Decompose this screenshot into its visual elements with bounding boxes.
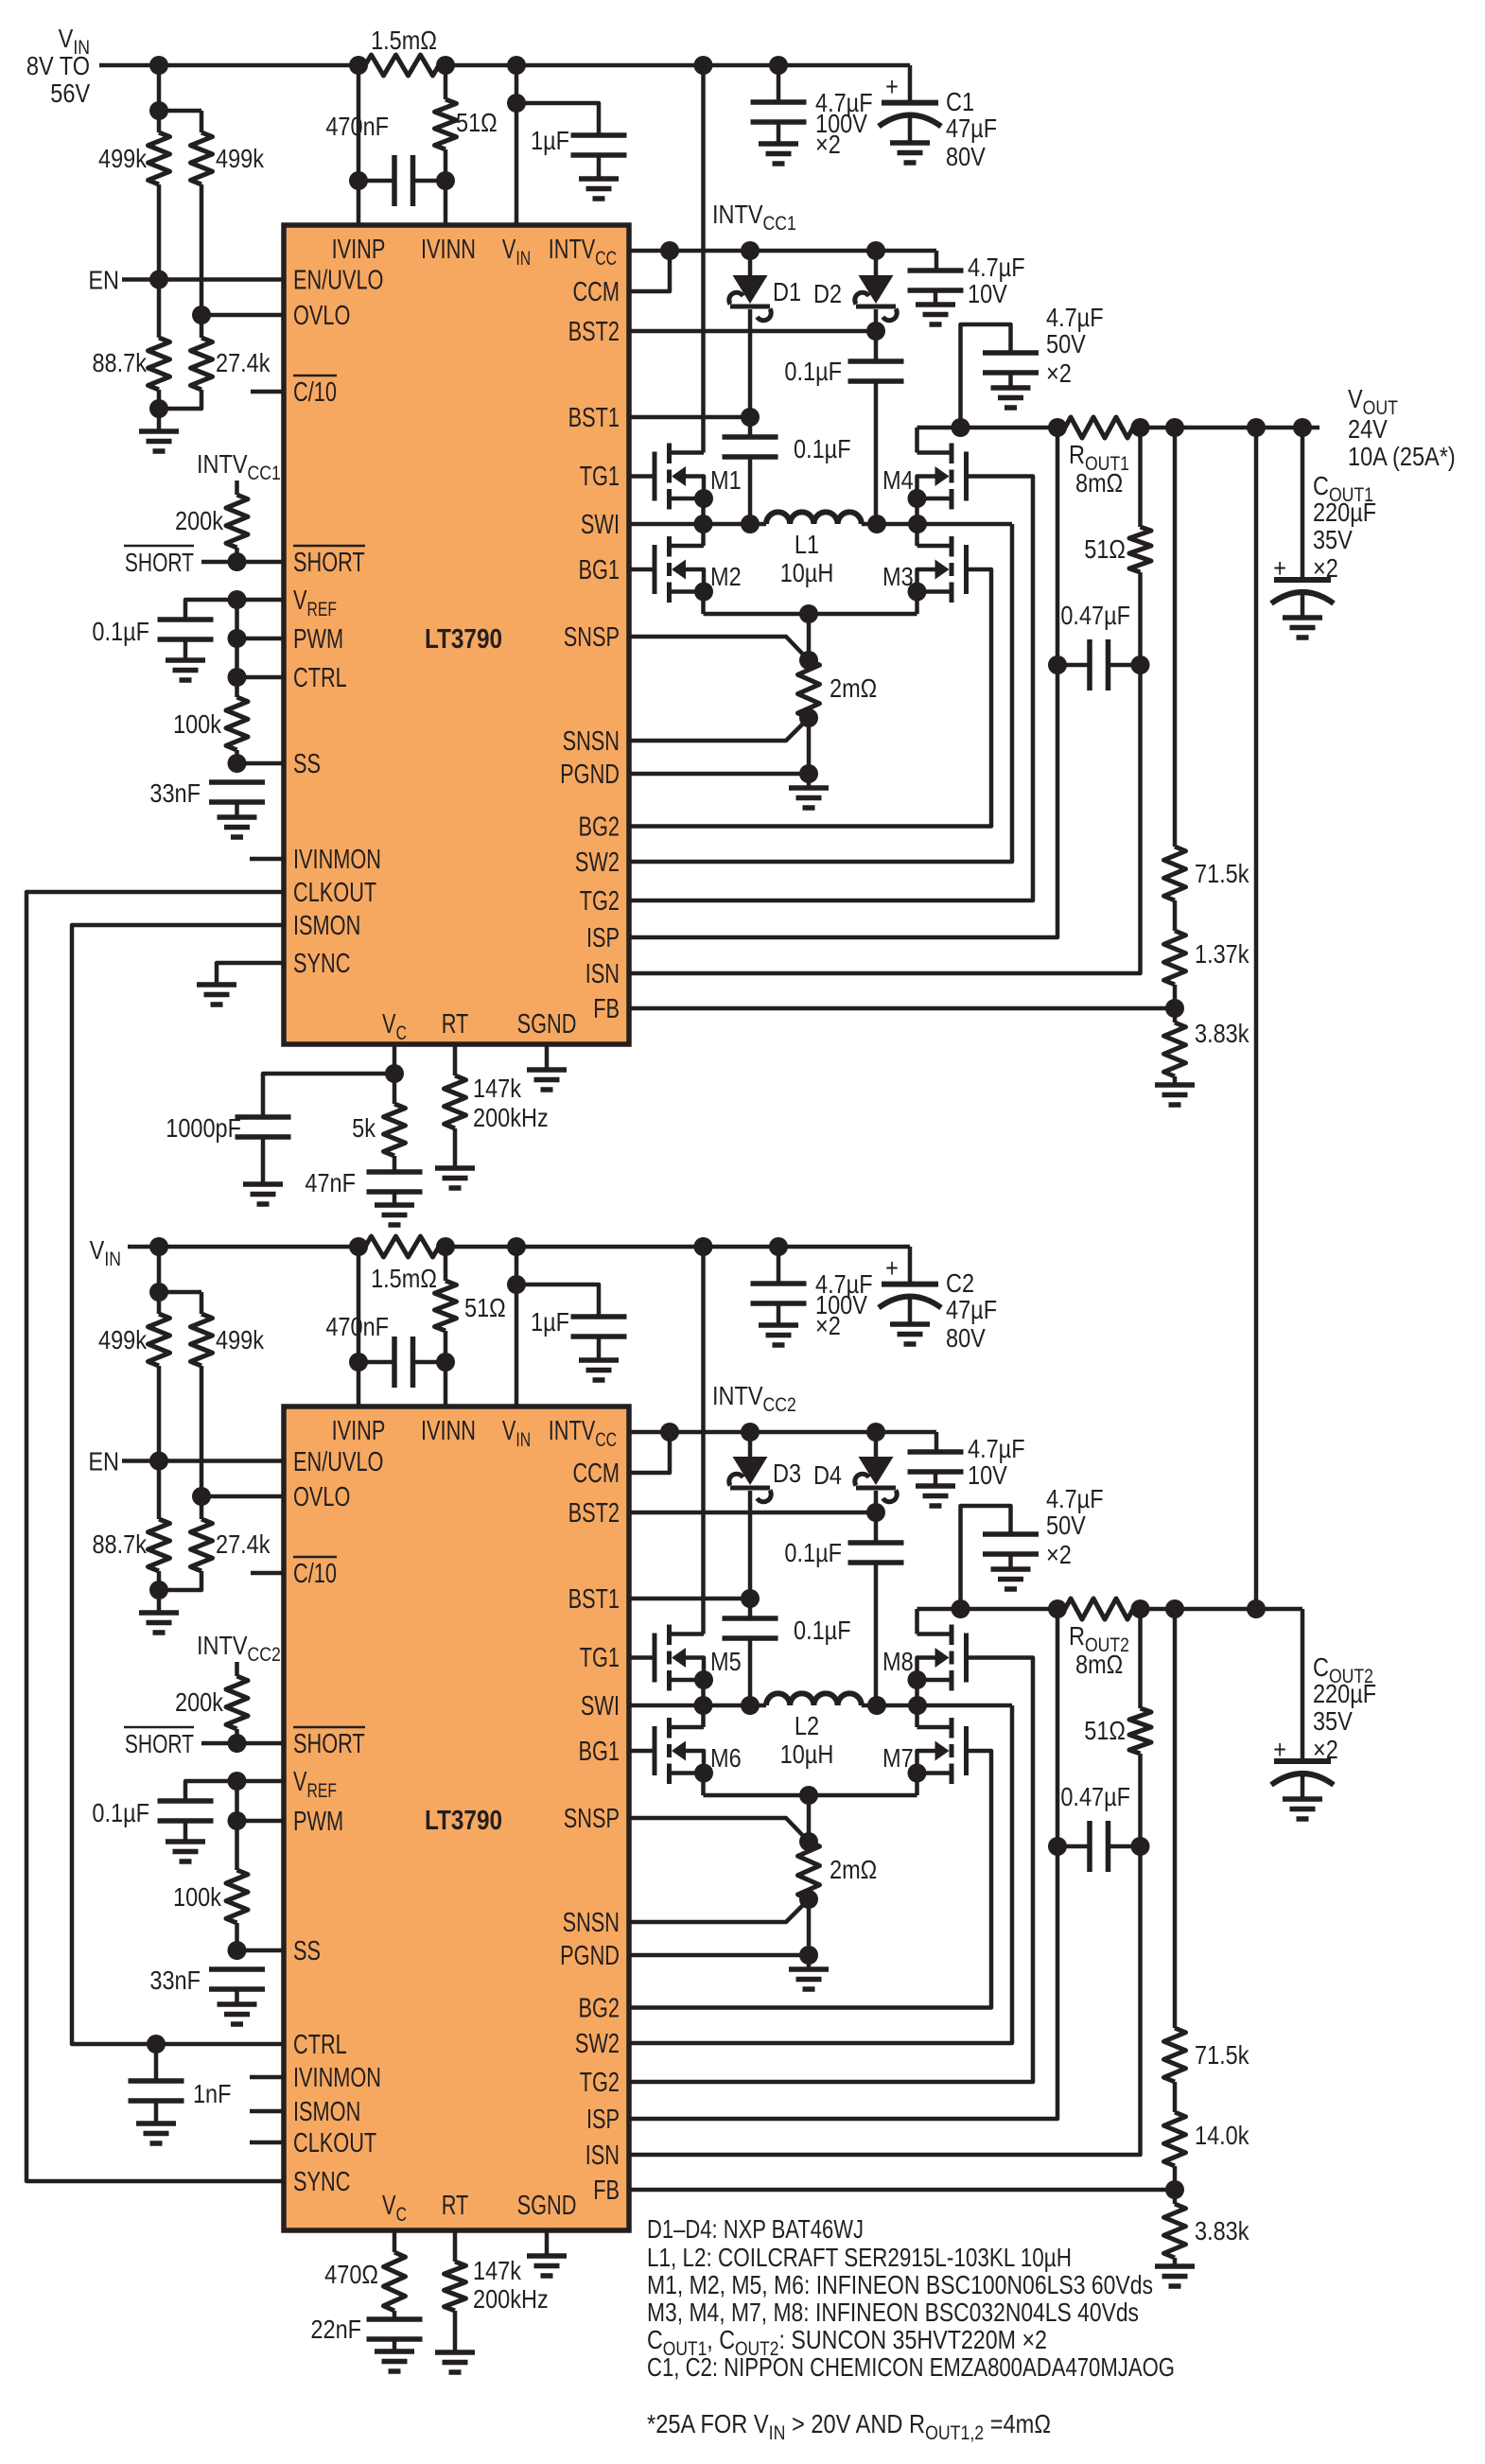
note COUT1 COUT2 part number	[647, 2325, 1047, 2360]
resistor 71.5k feedback top	[1164, 428, 1249, 900]
svg-text:51Ω: 51Ω	[1084, 535, 1126, 564]
node rail-IVINP junction	[349, 56, 368, 75]
wire divider top to right 499k	[159, 1292, 201, 1314]
wire SGND to ground	[545, 2230, 550, 2256]
svg-text:470nF: 470nF	[325, 113, 389, 141]
svg-text:14.0k: 14.0k	[1195, 2122, 1249, 2150]
svg-text:×2: ×2	[1046, 359, 1072, 388]
svg-text:35V: 35V	[1313, 526, 1354, 554]
wire BG1 pin to M2 gate	[629, 568, 655, 572]
node SWI M5/M6 junction	[694, 1696, 713, 1715]
resistor 1.5mOhm input current sense	[358, 26, 445, 76]
node rail-VIN pin junction	[507, 1237, 526, 1256]
node PWM junction	[228, 1811, 247, 1830]
wire M3 gate to BG2 vertical	[629, 569, 991, 827]
wire M2 drain to SWI	[701, 524, 706, 546]
resistor 2mOhm output current sense	[798, 614, 878, 718]
capacitor 4.7uF 100V x2 input ceramic	[751, 1247, 873, 1340]
resistor ROUT2 8mOhm	[1057, 1599, 1141, 1679]
svg-text:147k: 147k	[473, 1075, 521, 1103]
svg-text:FB: FB	[593, 994, 620, 1024]
svg-text:27.4k: 27.4k	[216, 349, 271, 377]
net label VIN input	[26, 25, 91, 108]
node rail M-drain junction	[694, 1237, 713, 1256]
ground VREF bypass	[166, 660, 205, 680]
ground SYNC	[197, 985, 236, 1005]
svg-text:0.47µF: 0.47µF	[1060, 602, 1130, 630]
svg-text:LT3790: LT3790	[425, 1805, 502, 1835]
capacitor 0.1uF BST1 bootstrap	[723, 417, 851, 463]
wire BST1 pin	[629, 415, 750, 420]
net label INTVCC2 (200k pullup)	[197, 1632, 281, 1666]
wire IVINN pin vertical	[444, 1247, 448, 1407]
svg-text:100k: 100k	[173, 1883, 221, 1912]
svg-text:SGND: SGND	[517, 2191, 577, 2221]
net label EN	[88, 267, 119, 295]
resistor 71.5k feedback top	[1164, 1609, 1249, 2082]
wire IVINN pin vertical	[444, 65, 448, 225]
svg-text:M3, M4, M7, M8: INFINEON BSC03: M3, M4, M7, M8: INFINEON BSC032N04LS 40V…	[647, 2298, 1139, 2327]
svg-text:4.7µF: 4.7µF	[968, 253, 1025, 282]
resistor 100k PWM divider	[173, 677, 248, 763]
svg-text:IVINMON: IVINMON	[293, 845, 381, 875]
ground INTVCC bypass	[916, 1486, 955, 1506]
diode D2 BST2 schottky	[813, 251, 897, 321]
wire ISN pin	[629, 1846, 1141, 2155]
ground SGND	[527, 2256, 567, 2276]
svg-text:CTRL: CTRL	[293, 663, 347, 693]
svg-text:470nF: 470nF	[325, 1313, 389, 1341]
svg-text:1.5mΩ: 1.5mΩ	[371, 1265, 437, 1293]
capacitor 0.1uF VREF bypass	[92, 1799, 213, 1842]
ground COUT1	[1283, 618, 1322, 638]
svg-text:71.5k: 71.5k	[1195, 860, 1249, 888]
wire SNSP pin kelvin	[629, 637, 809, 660]
svg-text:SWI: SWI	[581, 1691, 620, 1721]
svg-text:200kHz: 200kHz	[473, 1104, 549, 1132]
svg-text:1.5mΩ: 1.5mΩ	[371, 26, 437, 55]
wire SHORT to pin	[201, 560, 284, 565]
svg-text:PGND: PGND	[560, 760, 620, 790]
wire VREF pin	[237, 1779, 285, 1784]
wire M8 source to SW2	[915, 1680, 919, 1705]
node 470nF left junction	[349, 171, 368, 190]
transistor M1 top buck NMOS	[655, 444, 742, 510]
wire SHORT to pin	[201, 1741, 284, 1746]
capacitor 470nF sense filter	[325, 1313, 445, 1388]
wire ISP pin	[629, 1846, 1057, 2119]
capacitor 0.1uF BST2 bootstrap	[784, 1512, 903, 1567]
svg-text:EN: EN	[88, 267, 119, 295]
wire TG1 pin to M1 gate	[629, 474, 655, 479]
wire SS pin	[237, 1948, 285, 1953]
svg-text:100k: 100k	[173, 710, 221, 739]
note M3 M4 M7 M8 part number	[647, 2298, 1139, 2327]
svg-text:M1: M1	[710, 466, 742, 495]
svg-text:1000pF: 1000pF	[166, 1114, 241, 1143]
node 0.47uF right junction	[1131, 655, 1150, 674]
wire rail to M-drain branch	[516, 1245, 704, 1249]
resistor 88.7k (EN/UVLO bottom)	[92, 1461, 169, 1572]
wire IVINMON stub	[250, 857, 284, 862]
svg-text:4.7µF: 4.7µF	[1046, 304, 1104, 332]
ground soft-start cap	[218, 2004, 257, 2024]
svg-text:SW2: SW2	[575, 2029, 620, 2059]
node divider ground junction	[149, 399, 168, 418]
node SW2 inductor junction	[867, 1696, 886, 1715]
svg-text:C/10: C/10	[293, 1559, 337, 1589]
wire BST2 cap to SW2 node	[874, 381, 879, 524]
svg-text:D1–D4: NXP BAT46WJ: D1–D4: NXP BAT46WJ	[647, 2214, 864, 2244]
wire VREF to 0.1uF	[185, 1781, 237, 1801]
ground 1000pF	[243, 1184, 283, 1204]
capacitor 4.7uF 10V INTVCC bypass	[908, 253, 1025, 308]
wire VOUT rail from M4	[917, 426, 961, 430]
ground input ceramic cap	[759, 1325, 798, 1345]
svg-text:SYNC: SYNC	[293, 949, 350, 979]
wire source node row	[704, 612, 917, 617]
node 2mOhm top node	[799, 1786, 818, 1805]
svg-text:+: +	[885, 73, 899, 101]
inductor L2 10uH	[751, 1693, 877, 1769]
wire source node row	[704, 1793, 917, 1798]
wire M4 gate to TG2 vertical	[629, 477, 1033, 901]
resistor 147k RT 200kHz	[445, 1044, 549, 1168]
node INTVCC D4 junction	[866, 1423, 885, 1442]
ground output ceramic cap	[991, 1569, 1031, 1589]
svg-text:CCM: CCM	[572, 1459, 620, 1489]
svg-text:10V: 10V	[968, 1461, 1008, 1490]
node SS junction	[228, 1941, 247, 1960]
wire ISMON stub	[250, 2109, 284, 2114]
svg-text:BST2: BST2	[568, 317, 620, 347]
svg-text:TG2: TG2	[580, 886, 620, 917]
svg-text:88.7k: 88.7k	[92, 349, 147, 377]
wire BG1 pin to M6 gate	[629, 1749, 655, 1754]
node 0.47uF right junction	[1131, 1837, 1150, 1856]
wire D4 cathode to BST2 node	[874, 1491, 879, 1512]
svg-text:3.83k: 3.83k	[1195, 1020, 1249, 1048]
wire M3 source down	[915, 592, 919, 615]
svg-text:47nF: 47nF	[305, 1169, 356, 1197]
wire VOUT rail mid	[1141, 1607, 1176, 1612]
svg-text:SHORT: SHORT	[125, 1730, 194, 1759]
ground feedback divider	[1155, 2258, 1195, 2286]
svg-text:D1: D1	[773, 278, 801, 306]
svg-text:8mΩ: 8mΩ	[1075, 1651, 1123, 1679]
wire M8 gate to TG2 vertical	[629, 1658, 1033, 2083]
transistor M5 top buck NMOS	[655, 1625, 742, 1691]
wire M4 drain to VOUT rail	[915, 428, 919, 453]
wire ISMON to phase-2 CTRL	[72, 925, 284, 2044]
wire VOUT rail end	[1302, 426, 1319, 430]
svg-text:499k: 499k	[98, 145, 147, 173]
node INTVCC-CCM junction	[660, 241, 679, 260]
note L1 L2 part number	[647, 2243, 1072, 2272]
svg-text:C1: C1	[946, 88, 974, 116]
wire rail to bulk cap C1	[778, 65, 910, 103]
svg-text:C/10: C/10	[293, 377, 337, 408]
transistor M3 bottom boost NMOS	[882, 536, 967, 603]
wire ISN pin	[629, 665, 1141, 973]
note 25A condition	[647, 2409, 1051, 2444]
node 1uF branch junction	[507, 94, 526, 113]
svg-text:PGND: PGND	[560, 1941, 620, 1971]
svg-text:50V: 50V	[1046, 1512, 1087, 1540]
svg-text:BST2: BST2	[568, 1498, 620, 1529]
svg-text:M2: M2	[710, 563, 742, 591]
wire VREF-PWM link	[235, 600, 239, 638]
wire 88.7k to ground node	[157, 1571, 162, 1590]
svg-text:OVLO: OVLO	[293, 1482, 350, 1512]
resistor 27.4k (OVLO bottom)	[191, 1496, 271, 1571]
node VOUT 50V-cap junction	[952, 418, 970, 437]
node SHORT junction	[228, 552, 247, 571]
svg-text:VIN: VIN	[90, 1236, 121, 1270]
node CTRL junction	[228, 668, 247, 687]
wire BST1 cap to SWI node	[748, 1638, 753, 1705]
capacitor 33nF soft-start	[149, 1966, 265, 2004]
svg-text:×2: ×2	[815, 131, 841, 159]
svg-text:SGND: SGND	[517, 1009, 577, 1040]
svg-text:27.4k: 27.4k	[216, 1530, 271, 1559]
ground output ceramic cap	[991, 388, 1031, 408]
svg-text:200k: 200k	[175, 1688, 223, 1717]
svg-text:10A (25A*): 10A (25A*)	[1348, 443, 1456, 471]
wire SW2 node to SW2 vertical	[917, 522, 1012, 527]
capacitor 1nF CTRL filter	[129, 2044, 232, 2123]
svg-text:33nF: 33nF	[149, 779, 201, 808]
svg-text:×2: ×2	[1313, 554, 1338, 583]
svg-text:SNSP: SNSP	[564, 622, 620, 653]
svg-text:M3: M3	[882, 563, 914, 591]
ground PGND	[789, 774, 829, 808]
ground soft-start cap	[218, 817, 257, 837]
svg-text:51Ω: 51Ω	[464, 1294, 506, 1322]
transistor M4 top boost NMOS	[882, 444, 967, 510]
svg-text:35V: 35V	[1313, 1707, 1354, 1736]
svg-text:BST1: BST1	[568, 403, 620, 433]
capacitor C1 47uF 80V electrolytic	[879, 73, 997, 171]
svg-text:8mΩ: 8mΩ	[1075, 469, 1123, 498]
wire CLKOUT stub	[250, 2141, 284, 2145]
node ROUT2 left junction	[1048, 1599, 1067, 1618]
svg-text:8V TO: 8V TO	[26, 52, 90, 80]
svg-text:PWM: PWM	[293, 624, 343, 655]
wire M7 drain to SW2	[915, 1705, 919, 1727]
resistor 3.83k feedback bottom	[1164, 1008, 1249, 1076]
wire rail to input caps	[704, 63, 779, 68]
resistor 51 Ohm sense filter	[435, 99, 498, 149]
wire VOUT rail to link	[1175, 1607, 1256, 1612]
node INTVCC D3 junction	[741, 1423, 760, 1442]
wire D3 cathode to BST1	[748, 1491, 753, 1599]
wire rail to input caps	[704, 1245, 779, 1249]
wire M2 source down	[701, 592, 706, 615]
ground RT resistor	[435, 1168, 475, 1188]
node VOUT 50V-cap junction	[952, 1599, 970, 1618]
net label INTVCC1	[712, 201, 796, 235]
svg-text:M8: M8	[882, 1648, 914, 1676]
wire CCM to INTVCC	[629, 1432, 670, 1473]
wire VREF to 0.1uF	[185, 600, 237, 620]
node 0.47uF left junction	[1048, 1837, 1067, 1856]
wire rail to bulk cap C2	[778, 1247, 910, 1284]
U1 LT3790 controller IC	[284, 225, 629, 1044]
node SW2 M3/M4 junction	[908, 515, 927, 533]
resistor 470 Ohm VC compensation	[324, 2230, 405, 2319]
wire M7 gate to BG2 vertical	[629, 1751, 991, 2008]
svg-text:FB: FB	[593, 2176, 620, 2206]
svg-text:BG2: BG2	[578, 1994, 620, 2024]
resistor 2mOhm output current sense	[798, 1795, 878, 1899]
svg-text:SNSN: SNSN	[563, 1908, 620, 1938]
wire VOUT rail to COUT2	[1256, 1607, 1302, 1612]
wire left 499k to EN node	[157, 1366, 162, 1461]
svg-text:200kHz: 200kHz	[473, 2285, 549, 2314]
svg-text:CLKOUT: CLKOUT	[293, 878, 376, 908]
capacitor 4.7uF 50V x2 output ceramic	[961, 1485, 1104, 1609]
svg-text:200k: 200k	[175, 507, 223, 535]
wire VOUT rail from M8	[917, 1607, 961, 1612]
svg-text:SWI: SWI	[581, 510, 620, 540]
svg-text:24V: 24V	[1348, 415, 1389, 444]
svg-text:1µF: 1µF	[531, 127, 569, 155]
wire 2mOhm to PGND	[807, 1899, 812, 1955]
wire M5 source to SWI	[701, 1680, 706, 1705]
node rail-VIN pin junction	[507, 56, 526, 75]
svg-text:IVINN: IVINN	[421, 1416, 476, 1446]
wire INTVCC pin rail	[629, 251, 936, 271]
node FB junction	[1165, 2180, 1184, 2199]
wire FB pin	[629, 1006, 1175, 1011]
wire FB pin	[629, 2188, 1175, 2193]
wire PWM-CTRL link	[235, 638, 239, 677]
svg-text:SS: SS	[293, 749, 321, 779]
svg-text:0.1µF: 0.1µF	[794, 1616, 851, 1645]
wire to 1uF bypass	[516, 1284, 599, 1317]
wire 27.4k to ground node	[159, 390, 201, 409]
wire M6 drain to SWI	[701, 1705, 706, 1727]
node VOUT link junction	[1247, 1599, 1266, 1618]
svg-text:IVINN: IVINN	[421, 235, 476, 265]
svg-text:VOUT: VOUT	[1348, 385, 1398, 419]
wire BST2 pin	[629, 329, 876, 334]
wire PGND pin	[629, 1953, 809, 1958]
wire OVLO to OVLO pin	[201, 1494, 284, 1499]
svg-text:10V: 10V	[968, 280, 1008, 308]
node SWI BST1-cap junction	[741, 515, 760, 533]
node OVLO junction	[192, 1487, 211, 1506]
svg-text:51Ω: 51Ω	[456, 109, 498, 137]
wire 2mOhm to PGND	[807, 718, 812, 774]
resistor 499k right (OVLO top)	[191, 132, 265, 184]
node INTVCC D1 junction	[741, 241, 760, 260]
capacitor C2 47uF 80V electrolytic	[879, 1254, 997, 1353]
wire CLKOUT to phase-2 SYNC	[26, 892, 284, 2181]
wire 88.7k to ground node	[157, 390, 162, 409]
node SNSP kelvin junction	[799, 651, 818, 670]
node SWI M1/M2 junction	[694, 515, 713, 533]
svg-text:22nF: 22nF	[310, 2315, 361, 2344]
node BST2 junction	[866, 322, 885, 341]
svg-text:SNSN: SNSN	[563, 726, 620, 757]
diode D3 BST1 schottky	[729, 1432, 801, 1502]
resistor 88.7k (EN/UVLO bottom)	[92, 280, 169, 391]
node VREF junction	[228, 590, 247, 609]
node SNSN kelvin junction	[799, 1890, 818, 1909]
resistor 3.83k feedback bottom	[1164, 2190, 1249, 2258]
ground C2	[890, 1324, 930, 1344]
svg-text:ISN: ISN	[585, 959, 620, 989]
svg-text:LT3790: LT3790	[425, 623, 502, 654]
node rail input-cap junction	[769, 1237, 788, 1256]
net label VIN (second phase)	[90, 1236, 121, 1270]
svg-text:TG1: TG1	[580, 1643, 620, 1673]
svg-text:M5: M5	[710, 1648, 742, 1676]
node divider top junction	[149, 1283, 168, 1302]
svg-text:INTVCC1: INTVCC1	[712, 201, 796, 235]
node FB junction	[1165, 999, 1184, 1018]
wire CTRL pin	[237, 675, 285, 680]
wire rail down to divider junction	[157, 1247, 162, 1292]
node SW2 M7/M8 junction	[908, 1696, 927, 1715]
note C1 C2 part number	[647, 2352, 1175, 2382]
svg-text:×2: ×2	[815, 1312, 841, 1340]
wire SW2 node	[877, 522, 917, 527]
wire divider top to right 499k	[159, 111, 201, 132]
wire VREF-PWM link	[235, 1781, 239, 1821]
wire BST2 cap to SW2 node	[874, 1563, 879, 1705]
svg-text:10µH: 10µH	[780, 559, 834, 587]
node SW2 inductor junction	[867, 515, 886, 533]
svg-text:D2: D2	[813, 280, 842, 308]
wire BST1 cap to SWI node	[748, 457, 753, 524]
node VOUT link junction	[1247, 418, 1266, 437]
svg-text:0.1µF: 0.1µF	[784, 358, 842, 386]
diode D1 BST1 schottky	[729, 251, 801, 321]
resistor 200k SHORT pullup	[175, 1662, 248, 1743]
node divider ground junction	[149, 1581, 168, 1599]
svg-text:0.1µF: 0.1µF	[92, 618, 149, 646]
svg-text:33nF: 33nF	[149, 1966, 201, 1995]
node PWM junction	[228, 629, 247, 648]
ground PGND	[789, 1955, 829, 1989]
net label SHORT	[124, 546, 194, 578]
wire C/10 pin stub	[251, 390, 284, 394]
wire VOUT rail to link	[1175, 426, 1256, 430]
resistor 147k RT 200kHz	[445, 2230, 549, 2352]
wire SGND to ground	[545, 1044, 550, 1070]
node rail-IVINP junction	[349, 1237, 368, 1256]
wire M1 source to SWI	[701, 498, 706, 524]
ground SGND	[527, 1070, 567, 1090]
svg-text:BG2: BG2	[578, 813, 620, 843]
svg-text:5k: 5k	[352, 1114, 376, 1143]
node BST2 junction	[866, 1503, 885, 1522]
wire D1 cathode to BST1	[748, 309, 753, 417]
wire M5 drain to VIN rail	[701, 1247, 706, 1634]
node SNSP kelvin junction	[799, 1832, 818, 1851]
svg-text:BG1: BG1	[578, 555, 620, 585]
svg-text:47µF: 47µF	[946, 1296, 997, 1324]
diode D4 BST2 schottky	[813, 1432, 897, 1502]
wire VOUT rail to ROUT2	[961, 1607, 1058, 1612]
wire VOUT rail to ROUT1	[961, 426, 1058, 430]
svg-text:C2: C2	[946, 1269, 974, 1298]
svg-text:SNSP: SNSP	[564, 1804, 620, 1834]
node PGND junction	[799, 764, 818, 783]
